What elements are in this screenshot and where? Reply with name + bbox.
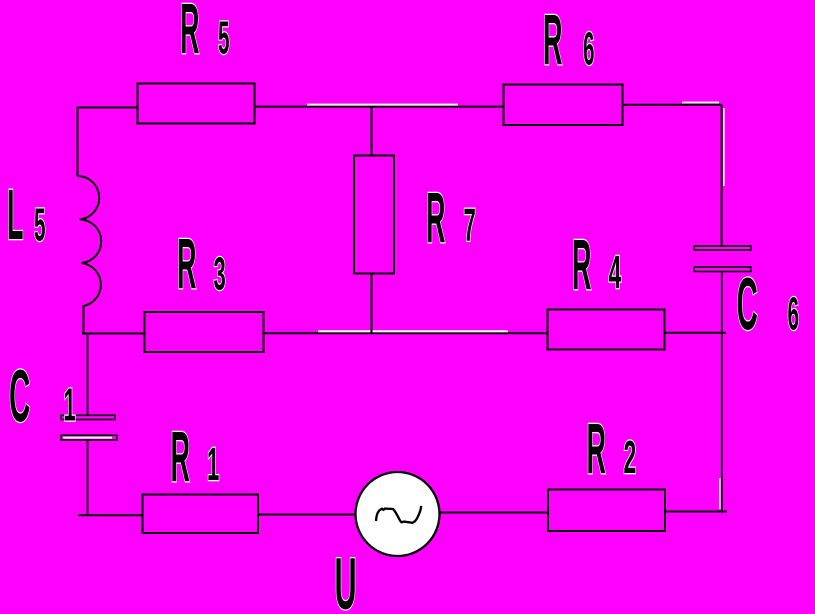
svg-text:R: R (171, 418, 190, 497)
svg-text:C: C (9, 355, 30, 438)
svg-text:R: R (543, 1, 562, 80)
svg-text:5: 5 (218, 12, 230, 64)
svg-text:2: 2 (624, 431, 637, 483)
white highlight C1 bottom plate (63, 437, 112, 439)
svg-text:6: 6 (788, 288, 800, 340)
svg-text:6: 6 (583, 23, 595, 75)
resistor R3 (145, 312, 264, 352)
wire white highlight right vertical lower (719, 478, 721, 509)
wire bottom right (665, 511, 727, 513)
svg-text:L: L (7, 176, 23, 255)
wire white highlight top middle (307, 104, 458, 106)
wire middle right (R4 to right vertical) (665, 332, 726, 334)
svg-text:1: 1 (64, 378, 76, 430)
resistor R5 (138, 84, 255, 124)
svg-text:R: R (177, 225, 196, 304)
svg-text:R: R (572, 226, 591, 305)
wire source to R2 (439, 512, 548, 514)
svg-text:7: 7 (464, 198, 476, 250)
resistor R1 (143, 495, 259, 534)
wire right vertical upper (corner to C6) (721, 105, 723, 247)
wire right vertical lower (C6 to bottom) (721, 272, 723, 512)
source U circle (356, 472, 440, 556)
wire top right (R6 to corner) (623, 104, 722, 106)
wire bottom left (78, 514, 143, 516)
resistor R6 (504, 85, 623, 126)
svg-text:R: R (180, 0, 199, 69)
inductor L5 (78, 176, 102, 334)
resistor R7 (354, 156, 394, 274)
wire R7 bottom vertical (371, 274, 373, 334)
svg-text:U: U (335, 543, 357, 614)
capacitor C1 bottom plate (61, 435, 117, 440)
wire white highlight middle (318, 330, 508, 332)
svg-text:R: R (426, 179, 445, 258)
source U sine symbol (376, 506, 421, 523)
capacitor C6 top plate (694, 246, 751, 250)
svg-text:C: C (737, 263, 758, 346)
wire C1 branch lower (87, 440, 89, 515)
svg-text:R: R (587, 410, 606, 489)
wire R1 to source (258, 514, 356, 516)
wire R7 top vertical (371, 107, 373, 156)
resistor R4 (548, 310, 665, 350)
wire white highlight right vertical (723, 108, 725, 186)
svg-text:5: 5 (34, 199, 46, 251)
svg-text:3: 3 (214, 247, 226, 299)
svg-text:1: 1 (207, 438, 219, 490)
wire middle (R3 to R4) (264, 332, 548, 334)
resistor R2 (548, 490, 665, 532)
wire top-left corner (left vertical + segment to R5) (78, 108, 138, 177)
capacitor C6 bottom plate (694, 267, 751, 272)
wire middle left (L5 to R3) (82, 333, 145, 335)
wire top middle (R5 to R6) (255, 106, 504, 108)
capacitor C1 top plate (61, 415, 115, 419)
wire C1 branch upper (87, 334, 89, 416)
wire white highlight top right (682, 102, 719, 104)
svg-text:4: 4 (609, 246, 622, 298)
